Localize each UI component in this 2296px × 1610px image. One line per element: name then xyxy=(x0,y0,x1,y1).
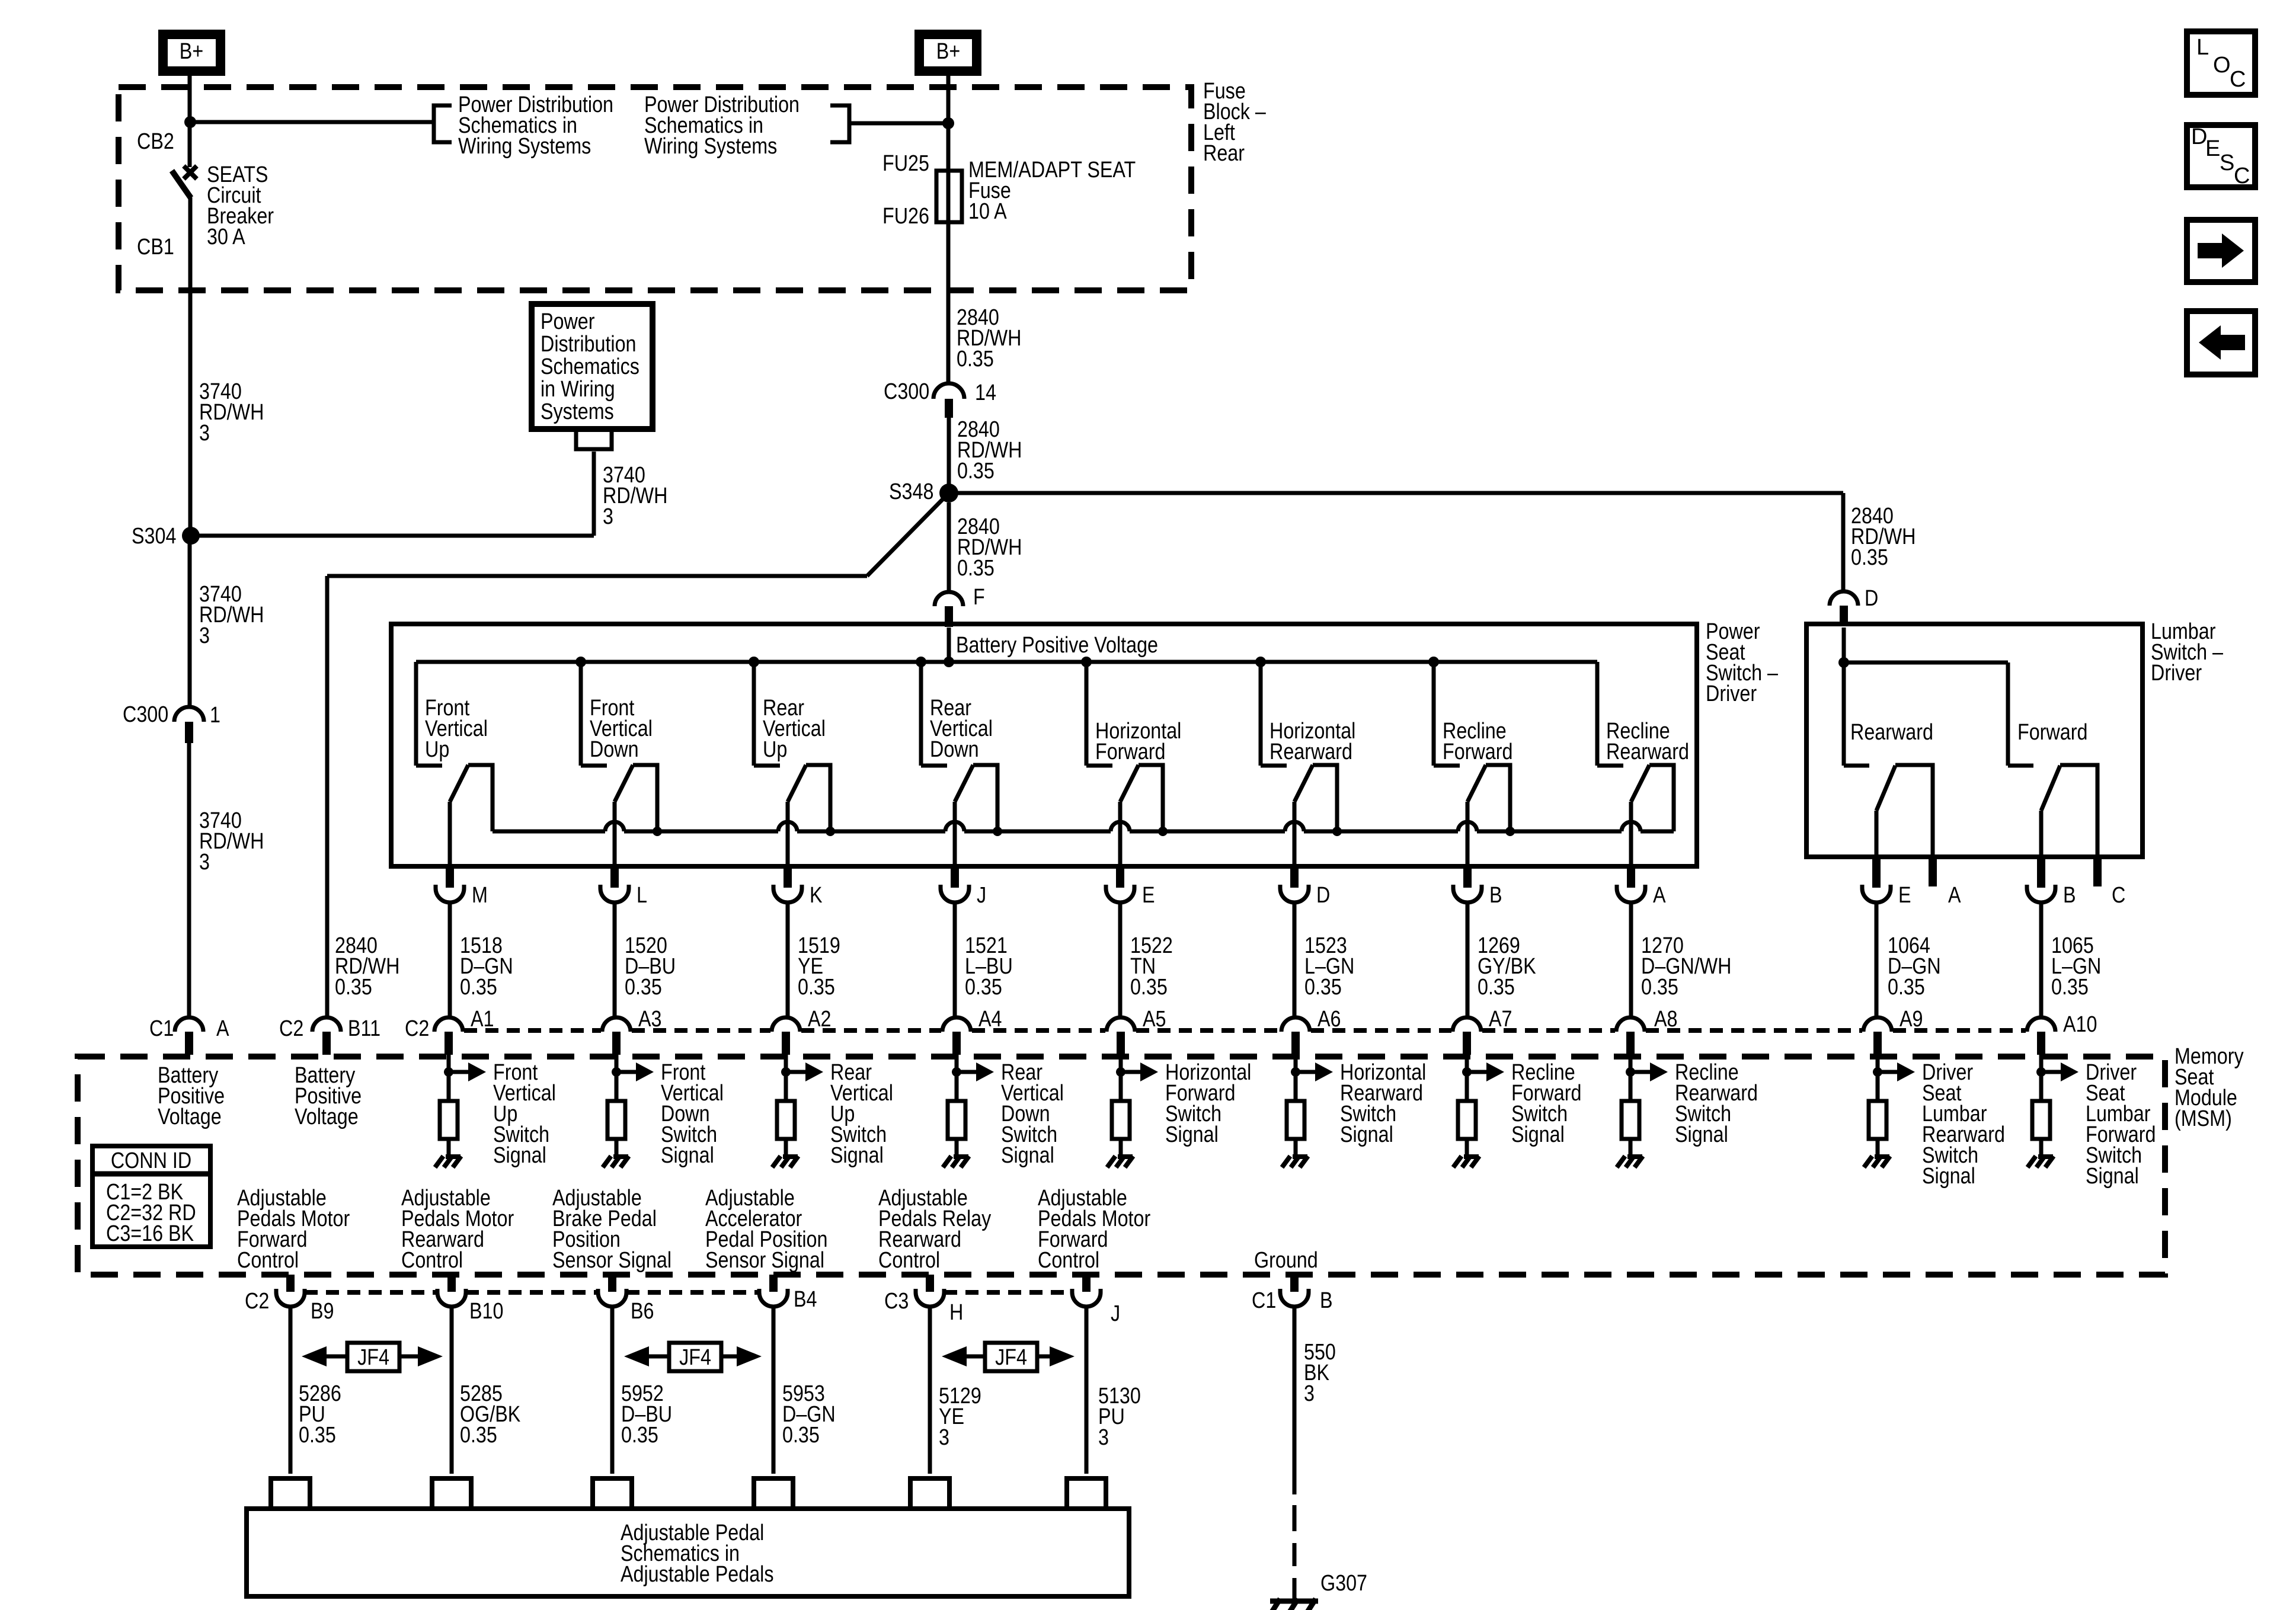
connector cup J xyxy=(941,885,969,902)
switch Recline Rearward blade xyxy=(1631,765,1649,802)
ground wire C1-B down xyxy=(1293,1307,1297,1494)
svg-text:S: S xyxy=(2220,151,2234,175)
switch Front Vertical Down feed xyxy=(579,662,583,766)
svg-text:C1=2 BKC2=32 RDC3=16 BK: C1=2 BKC2=32 RDC3=16 BK xyxy=(106,1180,196,1246)
B+ terminal 1 box xyxy=(163,34,220,71)
terminal B4 at adjustable pedal box xyxy=(754,1478,793,1509)
wire M down to MSM xyxy=(448,902,452,1017)
connector C2 pin A3 dome xyxy=(602,1017,631,1032)
resistor Driver Seat Lumbar Forward Switch Signal xyxy=(2032,1101,2050,1139)
connector pin A (power seat switch) xyxy=(1627,866,1635,888)
connector pin J (power seat switch) xyxy=(951,866,959,888)
connector cup B xyxy=(2027,885,2055,902)
connector C1 pin A pin xyxy=(185,1032,193,1055)
wire Recline input to resistor xyxy=(1465,1055,1469,1101)
splice pack JF4 symbol 2 xyxy=(624,1343,762,1371)
wire K down to MSM xyxy=(786,902,790,1017)
switch Front Vertical Down fixed contact xyxy=(581,764,607,768)
svg-text:Ground: Ground xyxy=(1254,1248,1318,1273)
connector cup E xyxy=(1862,885,1891,902)
wire B+2 down through fuse xyxy=(946,76,951,383)
wire from bracket 2 to fuse wire xyxy=(849,121,948,126)
splice S304 xyxy=(182,527,200,545)
wire C300-1 down to C1 A xyxy=(187,743,191,1017)
wire S304 to power distribution box xyxy=(191,534,594,538)
svg-text:C: C xyxy=(2230,67,2246,92)
switch Recline Rearward feed xyxy=(1595,662,1600,766)
adjustable pedal schematics box xyxy=(247,1509,1129,1596)
svg-text:A9: A9 xyxy=(1900,1007,1923,1032)
wire resistor to ground (Rear) xyxy=(955,1139,959,1156)
svg-text:B+: B+ xyxy=(180,39,203,64)
connector pin K (power seat switch) xyxy=(784,866,792,888)
svg-text:B: B xyxy=(2063,883,2076,908)
resistor Recline Forward Switch Signal xyxy=(1458,1101,1476,1139)
connector C300 pin 1 dome xyxy=(174,707,204,722)
DESC nav box xyxy=(2187,124,2255,188)
connector pin B10 (bottom) xyxy=(447,1275,456,1292)
junction dot Recline Forward feed xyxy=(1428,657,1439,667)
wire D pin into lumbar bus xyxy=(1842,628,1846,662)
wire branch down to C2 B11 xyxy=(325,576,330,1017)
svg-text:A8: A8 xyxy=(1654,1007,1677,1032)
connector pin B9 (bottom) xyxy=(286,1275,295,1292)
ground symbol (Horizontal Rearward Switch Signal) xyxy=(1282,1156,1308,1167)
svg-text:B9: B9 xyxy=(311,1299,334,1324)
switch Horizontal Rearward feed xyxy=(1259,662,1263,766)
svg-text:L: L xyxy=(637,883,647,908)
junction dot on switch rail xyxy=(993,827,1002,836)
switch Recline Rearward second contact xyxy=(1649,765,1674,831)
svg-text:Battery Positive Voltage: Battery Positive Voltage xyxy=(956,633,1158,658)
resistor Horizontal Rearward Switch Signal xyxy=(1287,1101,1304,1139)
switch Horizontal Forward second contact xyxy=(1139,765,1163,831)
wire B6 down to terminal xyxy=(610,1307,615,1474)
svg-text:14: 14 xyxy=(975,380,996,405)
ground symbol (Recline Rearward Switch Signal) xyxy=(1617,1156,1643,1167)
connector C300 pin 14 pin xyxy=(945,399,953,418)
wire E down to MSM xyxy=(1118,902,1123,1017)
svg-text:JF4: JF4 xyxy=(679,1345,711,1370)
switch Recline Forward output wire xyxy=(1466,802,1470,866)
switch Rear Vertical Down second contact xyxy=(973,765,997,831)
svg-text:O: O xyxy=(2213,53,2231,78)
signal arrow Front Vertical Down Switch Signal xyxy=(616,1062,654,1081)
junction dot on switch rail xyxy=(1505,827,1515,836)
memory seat module dashed outline xyxy=(78,1057,2165,1275)
connector C2 pin A1 pin xyxy=(445,1032,453,1055)
wire D down to MSM xyxy=(1293,902,1297,1017)
svg-text:HorizontalRearward: HorizontalRearward xyxy=(1269,719,1355,764)
svg-text:A5: A5 xyxy=(1143,1007,1166,1032)
wire resistor to ground (Driver) xyxy=(1876,1139,1880,1156)
connector C2 dashed tie line xyxy=(464,1028,2026,1033)
wire Rear input to resistor xyxy=(955,1055,959,1101)
svg-text:1: 1 xyxy=(210,703,220,728)
svg-text:B: B xyxy=(1489,883,1502,908)
lumbar feed bus xyxy=(1844,661,2008,665)
junction dot Horizontal Forward feed xyxy=(1081,657,1092,667)
junction dot Rear Vertical Up Switch Signal xyxy=(781,1067,791,1077)
lumbar rearward blade xyxy=(1876,766,1895,811)
svg-text:C300: C300 xyxy=(884,379,929,404)
connector cup B9 xyxy=(276,1289,305,1307)
wire from CB2 tap to bracket xyxy=(190,120,434,124)
svg-text:H: H xyxy=(949,1300,963,1325)
switch Front Vertical Down second contact xyxy=(633,765,657,831)
resistor Rear Vertical Up Switch Signal xyxy=(777,1101,795,1139)
lumbar switch driver box xyxy=(1806,624,2142,857)
junction dot Rear Vertical Down feed xyxy=(916,657,926,667)
junction dot F on bus xyxy=(944,657,954,667)
lumbar forward switch feed xyxy=(2006,662,2010,766)
wire CB1 down to S304 xyxy=(188,197,193,527)
connector C2 pin A10 dome xyxy=(2027,1017,2055,1032)
connector C2 pin B11 pin xyxy=(322,1032,331,1055)
connector F dome (power seat switch) xyxy=(935,592,963,606)
signal arrow Front Vertical Up Switch Signal xyxy=(449,1062,486,1081)
svg-text:CONN ID: CONN ID xyxy=(111,1148,191,1173)
switch Rear Vertical Up blade xyxy=(788,765,806,802)
svg-text:S304: S304 xyxy=(132,524,176,549)
switch Horizontal Rearward fixed contact xyxy=(1261,764,1287,768)
switch Rear Vertical Up fixed contact xyxy=(754,764,780,768)
switch Front Vertical Up feed xyxy=(414,662,418,766)
svg-text:A3: A3 xyxy=(638,1007,661,1032)
svg-text:A1: A1 xyxy=(471,1007,494,1032)
switch Horizontal Forward fixed contact xyxy=(1086,764,1112,768)
bracket for Power Distribution note 1 xyxy=(434,105,452,142)
junction dot on switch rail xyxy=(826,827,835,836)
wire Driver input to resistor xyxy=(2039,1055,2044,1101)
connector C2 pin A4 pin xyxy=(952,1032,961,1055)
ground symbol (Recline Forward Switch Signal) xyxy=(1453,1156,1479,1167)
svg-text:L: L xyxy=(2196,35,2209,60)
svg-text:B11: B11 xyxy=(348,1016,380,1041)
terminal B10 at adjustable pedal box xyxy=(432,1478,471,1509)
connector cup J xyxy=(1072,1289,1101,1307)
svg-text:JF4: JF4 xyxy=(995,1345,1027,1370)
wire E down to A9 xyxy=(1875,902,1879,1017)
svg-text:BatteryPositiveVoltage: BatteryPositiveVoltage xyxy=(295,1063,362,1129)
svg-text:C2: C2 xyxy=(279,1016,303,1041)
wire Recline input to resistor xyxy=(1629,1055,1633,1101)
connector pin M (power seat switch) xyxy=(446,866,454,888)
wire B down to A10 xyxy=(2039,902,2044,1017)
resistor Recline Rearward Switch Signal xyxy=(1622,1101,1639,1139)
circuit breaker blade xyxy=(172,171,191,198)
svg-text:Rearward: Rearward xyxy=(1850,720,1933,745)
switch Rear Vertical Down feed xyxy=(919,662,923,766)
svg-text:BatteryPositiveVoltage: BatteryPositiveVoltage xyxy=(158,1063,225,1129)
junction dot on switch rail xyxy=(1332,827,1342,836)
svg-text:E: E xyxy=(1142,883,1155,908)
lumbar rearward switch feed xyxy=(1842,662,1846,766)
svg-text:A: A xyxy=(1653,883,1666,908)
ground symbol (Rear Vertical Down Switch Signal) xyxy=(943,1156,969,1167)
ground symbol (Driver Seat Lumbar Rearward Switch Signal) xyxy=(1864,1156,1890,1167)
svg-text:J: J xyxy=(1111,1301,1120,1326)
switch Recline Forward feed xyxy=(1432,662,1436,766)
wire S348 to lumbar branch xyxy=(949,491,1843,495)
wire resistor to ground (Rear) xyxy=(784,1139,788,1156)
B+ terminal 2 box xyxy=(919,34,977,71)
ground G307 symbol xyxy=(1266,1599,1318,1610)
resistor Driver Seat Lumbar Rearward Switch Signal xyxy=(1869,1101,1886,1139)
ground symbol (Rear Vertical Up Switch Signal) xyxy=(772,1156,798,1167)
svg-text:FU26: FU26 xyxy=(882,204,929,229)
junction dot Recline Rearward Switch Signal xyxy=(1626,1067,1635,1077)
svg-text:ReclineForward: ReclineForward xyxy=(1443,719,1512,764)
junction dot Recline Forward Switch Signal xyxy=(1462,1067,1472,1077)
svg-text:B4: B4 xyxy=(794,1287,817,1312)
connector C2 pin A6 pin xyxy=(1291,1032,1300,1055)
svg-text:JF4: JF4 xyxy=(357,1345,389,1370)
switch Front Vertical Down blade xyxy=(615,765,633,802)
svg-text:C300: C300 xyxy=(123,702,168,727)
switch Recline Forward fixed contact xyxy=(1434,764,1460,768)
wire S348 to F xyxy=(947,502,951,593)
connector cup A xyxy=(1617,885,1645,902)
connector C2 pin A9 dome xyxy=(1863,1017,1892,1032)
svg-text:E: E xyxy=(2205,136,2220,161)
connector cup D xyxy=(1280,885,1309,902)
fuse block dashed outline xyxy=(119,87,1191,290)
lumbar forward second contact xyxy=(2060,765,2097,857)
ground wire off-page dashes xyxy=(1293,1505,1297,1601)
resistor Horizontal Forward Switch Signal xyxy=(1112,1101,1130,1139)
junction dot at fuse feed tap xyxy=(942,117,954,129)
junction dot Horizontal Rearward Switch Signal xyxy=(1291,1067,1300,1077)
connector pin E (lumbar) xyxy=(1872,857,1881,888)
wire resistor to ground (Driver) xyxy=(2039,1139,2044,1156)
svg-text:CB2: CB2 xyxy=(137,129,174,154)
switch Recline Rearward output wire xyxy=(1629,802,1633,866)
junction dot Driver Seat Lumbar Forward Switch Signal xyxy=(2036,1067,2046,1077)
wire resistor to ground (Front) xyxy=(615,1139,619,1156)
junction dot Rear Vertical Up feed xyxy=(749,657,759,667)
svg-text:Forward: Forward xyxy=(2017,720,2087,745)
connector C2 pin A1 dome xyxy=(434,1017,463,1032)
wire resistor to ground (Horizontal) xyxy=(1294,1139,1298,1156)
wire Front input to resistor xyxy=(615,1055,619,1101)
svg-text:J: J xyxy=(977,883,986,908)
connector pin A stub (lumbar, no wire) xyxy=(1929,857,1937,886)
connector C2 pin A8 dome xyxy=(1616,1017,1645,1032)
svg-text:A6: A6 xyxy=(1318,1007,1341,1032)
wire S304 down to C300-1 xyxy=(188,544,192,708)
connector pin B6 (bottom) xyxy=(608,1275,616,1292)
ground symbol (Front Vertical Down Switch Signal) xyxy=(603,1156,629,1167)
left arrow nav box xyxy=(2187,311,2255,375)
svg-text:K: K xyxy=(810,883,823,908)
terminal H at adjustable pedal box xyxy=(910,1478,949,1509)
connector pin L (power seat switch) xyxy=(610,866,619,888)
svg-text:C: C xyxy=(2234,164,2250,188)
junction dot on switch rail xyxy=(1158,827,1168,836)
switch Horizontal Forward blade xyxy=(1120,765,1139,802)
connector pin B (bottom) xyxy=(1290,1275,1299,1292)
connector cup M xyxy=(436,885,464,902)
svg-text:C2: C2 xyxy=(245,1289,269,1314)
wire F pin into bus xyxy=(947,628,951,662)
connector C300 pin 1 pin xyxy=(185,722,193,743)
signal arrow Recline Forward Switch Signal xyxy=(1467,1062,1504,1081)
right arrow nav box xyxy=(2187,220,2255,282)
wire B9 down to terminal xyxy=(289,1307,293,1474)
connector C2 pin A7 pin xyxy=(1463,1032,1471,1055)
splice S348 xyxy=(939,484,958,502)
power seat switch driver box xyxy=(391,624,1697,866)
switch Rear Vertical Down blade xyxy=(955,765,973,802)
wire up to power distribution box xyxy=(592,452,596,536)
signal arrow Recline Rearward Switch Signal xyxy=(1630,1062,1668,1081)
switch Horizontal Rearward blade xyxy=(1294,765,1313,802)
lumbar rearward output wire xyxy=(1875,811,1879,857)
switch Rear Vertical Up output wire xyxy=(786,802,790,866)
connector pin C stub (lumbar, no wire) xyxy=(2093,857,2102,886)
connector C2 pin A8 pin xyxy=(1626,1032,1635,1055)
switch Recline Rearward fixed contact xyxy=(1597,764,1623,768)
splice pack JF4 symbol 3 xyxy=(942,1343,1075,1371)
switch Rear Vertical Down fixed contact xyxy=(921,764,947,768)
switch Horizontal Forward feed xyxy=(1085,662,1089,766)
switch Horizontal Rearward output wire xyxy=(1293,802,1297,866)
wire Driver input to resistor xyxy=(1876,1055,1880,1101)
svg-text:E: E xyxy=(1898,883,1911,908)
svg-text:A: A xyxy=(1948,883,1961,908)
connector C2 pin A2 pin xyxy=(782,1032,790,1055)
junction dot Rear Vertical Down Switch Signal xyxy=(952,1067,961,1077)
switch Front Vertical Up blade xyxy=(450,765,468,802)
connector cup K xyxy=(773,885,802,902)
svg-text:G307: G307 xyxy=(1320,1571,1367,1596)
connector C3 dashed tie line (bottom) xyxy=(944,1290,1072,1295)
connector C2 pin A9 pin xyxy=(1873,1032,1882,1055)
wire B10 down to terminal xyxy=(450,1307,454,1474)
wire lumbar branch down to D xyxy=(1841,493,1846,592)
wire Front input to resistor xyxy=(447,1055,451,1101)
wire resistor to ground (Recline) xyxy=(1465,1139,1469,1156)
wire B4 down to terminal xyxy=(772,1307,776,1474)
svg-text:C1: C1 xyxy=(149,1016,174,1041)
switch common rail with crossover hops xyxy=(493,822,1674,831)
terminal J at adjustable pedal box xyxy=(1067,1478,1106,1509)
switch Recline Forward second contact xyxy=(1486,765,1510,831)
svg-text:A10: A10 xyxy=(2063,1012,2097,1037)
ground symbol (Driver Seat Lumbar Forward Switch Signal) xyxy=(2028,1156,2054,1167)
wire Horizontal input to resistor xyxy=(1294,1055,1298,1101)
connector C2 pin A7 dome xyxy=(1453,1017,1481,1032)
junction dot Front Vertical Up Switch Signal xyxy=(444,1067,453,1077)
lumbar rearward fixed contact xyxy=(1844,764,1869,768)
terminal B9 at adjustable pedal box xyxy=(271,1478,310,1509)
connector C1 pin A dome xyxy=(175,1017,203,1032)
connector cup H xyxy=(916,1289,944,1307)
wire C300-14 to S348 xyxy=(947,418,951,485)
svg-text:A4: A4 xyxy=(978,1007,1002,1032)
connector cup B6 xyxy=(598,1289,626,1307)
connector pin J (bottom) xyxy=(1082,1275,1091,1292)
battery positive voltage bus xyxy=(416,660,1597,664)
resistor Front Vertical Down Switch Signal xyxy=(607,1101,625,1139)
connector cup L xyxy=(600,885,629,902)
terminal B6 at adjustable pedal box xyxy=(593,1478,632,1509)
switch Horizontal Forward output wire xyxy=(1118,802,1123,866)
wire diagonal branch horizontal xyxy=(327,574,867,578)
connector C2 pin A3 pin xyxy=(612,1032,621,1055)
svg-text:C2: C2 xyxy=(405,1016,429,1041)
wire J down to terminal xyxy=(1085,1307,1089,1474)
connector C2 pin A2 dome xyxy=(772,1017,800,1032)
switch Front Vertical Up second contact xyxy=(468,765,493,831)
signal arrow Horizontal Rearward Switch Signal xyxy=(1296,1062,1333,1081)
LOC nav box xyxy=(2187,31,2255,95)
switch Front Vertical Up fixed contact xyxy=(416,764,442,768)
junction dot Driver Seat Lumbar Rearward Switch Signal xyxy=(1873,1067,1882,1077)
junction dot at CB2 tap xyxy=(184,116,196,128)
wire J down to MSM xyxy=(953,902,957,1017)
svg-text:B6: B6 xyxy=(631,1299,654,1324)
junction dot Horizontal Rearward feed xyxy=(1255,657,1266,667)
connector pin H (bottom) xyxy=(926,1275,934,1292)
switch Recline Forward blade xyxy=(1467,765,1486,802)
lumbar forward fixed contact xyxy=(2008,764,2033,768)
junction dot on switch rail xyxy=(653,827,662,836)
switch Rear Vertical Up second contact xyxy=(806,765,830,831)
svg-text:F: F xyxy=(973,585,985,610)
svg-text:C1: C1 xyxy=(1252,1288,1276,1313)
connector F pin xyxy=(945,606,953,627)
wire resistor to ground (Horizontal) xyxy=(1119,1139,1123,1156)
connector cup B4 xyxy=(759,1289,788,1307)
switch Rear Vertical Down output wire xyxy=(953,802,957,866)
svg-text:B: B xyxy=(1320,1288,1333,1313)
svg-text:B+: B+ xyxy=(936,39,960,64)
lumbar forward output wire xyxy=(2039,811,2044,857)
junction dot lumbar feed xyxy=(1838,657,1849,668)
circuit breaker contact X xyxy=(184,166,197,179)
svg-text:A: A xyxy=(216,1016,229,1041)
connector D pin xyxy=(1840,606,1848,626)
svg-text:C3: C3 xyxy=(884,1289,909,1314)
CONN ID header line xyxy=(92,1172,210,1177)
svg-text:C: C xyxy=(2112,883,2125,908)
signal arrow Driver Seat Lumbar Forward Switch Signal xyxy=(2041,1062,2078,1081)
wire Rear input to resistor xyxy=(784,1055,788,1101)
connector cup E xyxy=(1106,885,1134,902)
ground symbol (Front Vertical Up Switch Signal) xyxy=(435,1156,461,1167)
svg-text:FU25: FU25 xyxy=(882,151,929,176)
connector C2 pin A6 dome xyxy=(1281,1017,1310,1032)
connector C300 pin 14 dome xyxy=(933,383,964,399)
connector cup B xyxy=(1453,885,1482,902)
fuse FU25/FU26 MEM/ADAPT SEAT body xyxy=(936,171,962,222)
junction dot Horizontal Forward Switch Signal xyxy=(1116,1067,1125,1077)
wire L down to MSM xyxy=(613,902,617,1017)
CONN ID table box xyxy=(92,1146,210,1247)
resistor Rear Vertical Down Switch Signal xyxy=(948,1101,965,1139)
svg-text:CB1: CB1 xyxy=(137,235,174,260)
connector cup B10 xyxy=(437,1289,466,1307)
splice pack JF4 symbol 1 xyxy=(302,1343,443,1371)
terminal bracket under power distribution box xyxy=(576,429,612,449)
connector C2 pin A5 pin xyxy=(1117,1032,1125,1055)
lumbar forward blade xyxy=(2041,766,2060,811)
connector cup B xyxy=(1280,1289,1309,1307)
signal arrow Rear Vertical Down Switch Signal xyxy=(957,1062,994,1081)
wire B+1 down to breaker xyxy=(188,76,192,167)
